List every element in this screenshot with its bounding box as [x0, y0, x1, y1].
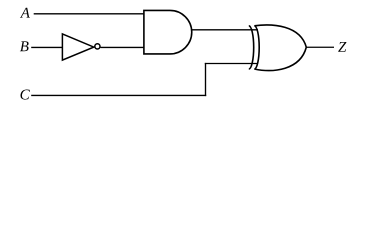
- AND gate U2: [144, 10, 192, 54]
- inverter U1: [62, 34, 93, 60]
- wire: [31, 46, 62, 48]
- wire: [34, 13, 144, 15]
- node Z: [338, 42, 346, 52]
- node B: [20, 41, 29, 51]
- XOR gate U3 input arc: [249, 26, 254, 69]
- inverter bubble: [95, 44, 100, 49]
- wire: [306, 46, 334, 48]
- wire: [101, 46, 145, 48]
- node C: [20, 90, 29, 100]
- wire: [205, 63, 258, 65]
- XOR gate U3 body: [254, 25, 306, 71]
- wire: [192, 29, 258, 31]
- node A: [20, 8, 30, 18]
- wire: [31, 94, 206, 96]
- wire: [205, 63, 207, 96]
